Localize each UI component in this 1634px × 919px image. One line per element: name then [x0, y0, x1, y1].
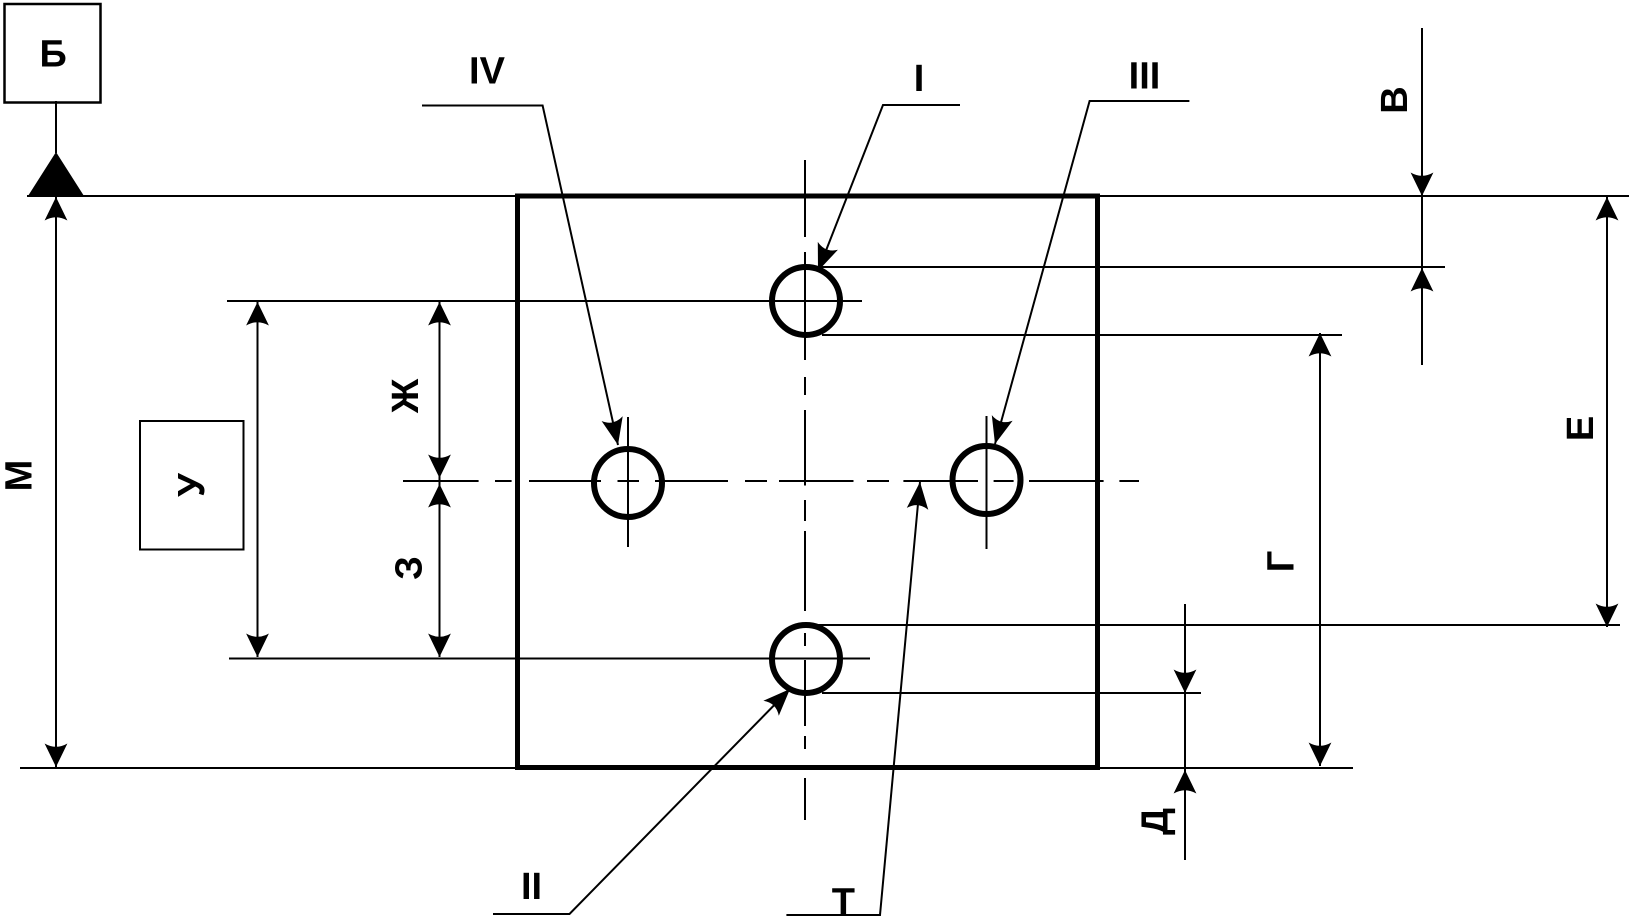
svg-text:Д: Д: [1135, 808, 1177, 835]
svg-text:Т: Т: [832, 882, 855, 919]
svg-text:Б: Б: [40, 34, 67, 76]
svg-text:У: У: [171, 473, 213, 497]
svg-text:IV: IV: [469, 51, 506, 93]
svg-text:В: В: [1374, 86, 1416, 113]
svg-text:III: III: [1129, 56, 1161, 98]
svg-text:Г: Г: [1261, 551, 1303, 573]
svg-text:З: З: [389, 556, 431, 580]
svg-text:М: М: [0, 460, 41, 492]
svg-text:II: II: [521, 866, 542, 908]
svg-text:Е: Е: [1560, 416, 1602, 441]
svg-text:Ж: Ж: [385, 378, 427, 414]
svg-text:I: I: [914, 58, 925, 100]
